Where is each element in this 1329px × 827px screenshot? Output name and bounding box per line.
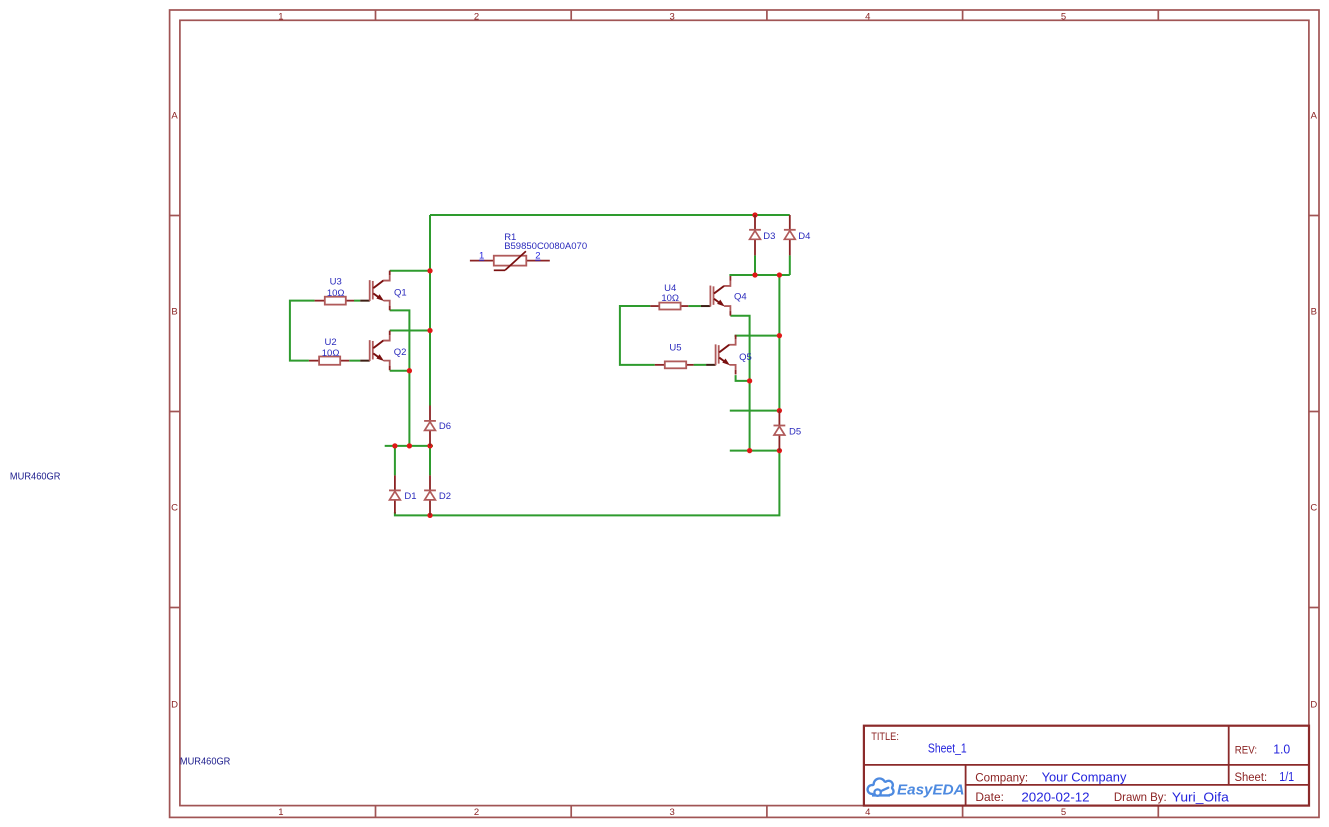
svg-text:EasyEDA: EasyEDA [897, 783, 965, 799]
svg-text:4: 4 [865, 807, 870, 818]
svg-text:1: 1 [278, 12, 283, 23]
svg-text:5: 5 [1061, 12, 1066, 23]
svg-text:D: D [171, 699, 178, 710]
svg-text:D3: D3 [763, 231, 775, 242]
svg-text:U2: U2 [325, 337, 337, 348]
svg-text:B: B [1311, 306, 1317, 317]
svg-text:Company:: Company: [975, 771, 1028, 785]
svg-text:D4: D4 [798, 231, 810, 242]
svg-text:B: B [171, 306, 177, 317]
svg-text:Q4: Q4 [734, 292, 747, 303]
svg-text:Drawn By:: Drawn By: [1114, 790, 1167, 804]
svg-text:U3: U3 [330, 277, 342, 288]
svg-text:B59850C0080A070: B59850C0080A070 [504, 241, 587, 252]
svg-text:1/1: 1/1 [1279, 769, 1294, 784]
svg-text:2: 2 [535, 251, 540, 262]
svg-text:U5: U5 [669, 343, 681, 354]
svg-text:2: 2 [474, 807, 479, 818]
svg-text:Q1: Q1 [394, 287, 407, 298]
svg-text:D5: D5 [789, 426, 801, 437]
svg-text:1.0: 1.0 [1273, 741, 1290, 756]
svg-text:1: 1 [479, 251, 484, 262]
svg-text:D2: D2 [439, 491, 451, 502]
svg-text:2020-02-12: 2020-02-12 [1021, 789, 1089, 804]
svg-text:5: 5 [1061, 807, 1066, 818]
svg-text:2: 2 [474, 12, 479, 23]
svg-text:A: A [1311, 111, 1318, 122]
svg-text:D1: D1 [404, 491, 416, 502]
svg-text:D: D [1310, 699, 1317, 710]
svg-text:MUR460GR: MUR460GR [180, 757, 231, 768]
svg-text:REV:: REV: [1235, 745, 1257, 757]
svg-text:MUR460GR: MUR460GR [10, 472, 61, 483]
svg-text:Date:: Date: [975, 790, 1004, 804]
svg-text:C: C [171, 502, 178, 513]
svg-text:10Ω: 10Ω [327, 288, 345, 299]
svg-text:A: A [171, 111, 178, 122]
svg-text:Q5: Q5 [739, 352, 752, 363]
svg-text:Your Company: Your Company [1042, 770, 1127, 785]
svg-text:3: 3 [670, 807, 675, 818]
svg-text:10Ω: 10Ω [661, 293, 679, 304]
svg-text:Q2: Q2 [394, 347, 407, 358]
svg-text:1: 1 [278, 807, 283, 818]
svg-text:4: 4 [865, 12, 870, 23]
svg-text:Sheet_1: Sheet_1 [928, 741, 967, 756]
svg-text:Sheet:: Sheet: [1235, 772, 1268, 784]
svg-text:C: C [1310, 502, 1317, 513]
svg-text:10Ω: 10Ω [322, 348, 340, 359]
svg-text:3: 3 [670, 12, 675, 23]
svg-text:D6: D6 [439, 421, 451, 432]
svg-text:TITLE:: TITLE: [871, 731, 899, 743]
svg-text:Yuri_Oifa: Yuri_Oifa [1172, 789, 1230, 804]
